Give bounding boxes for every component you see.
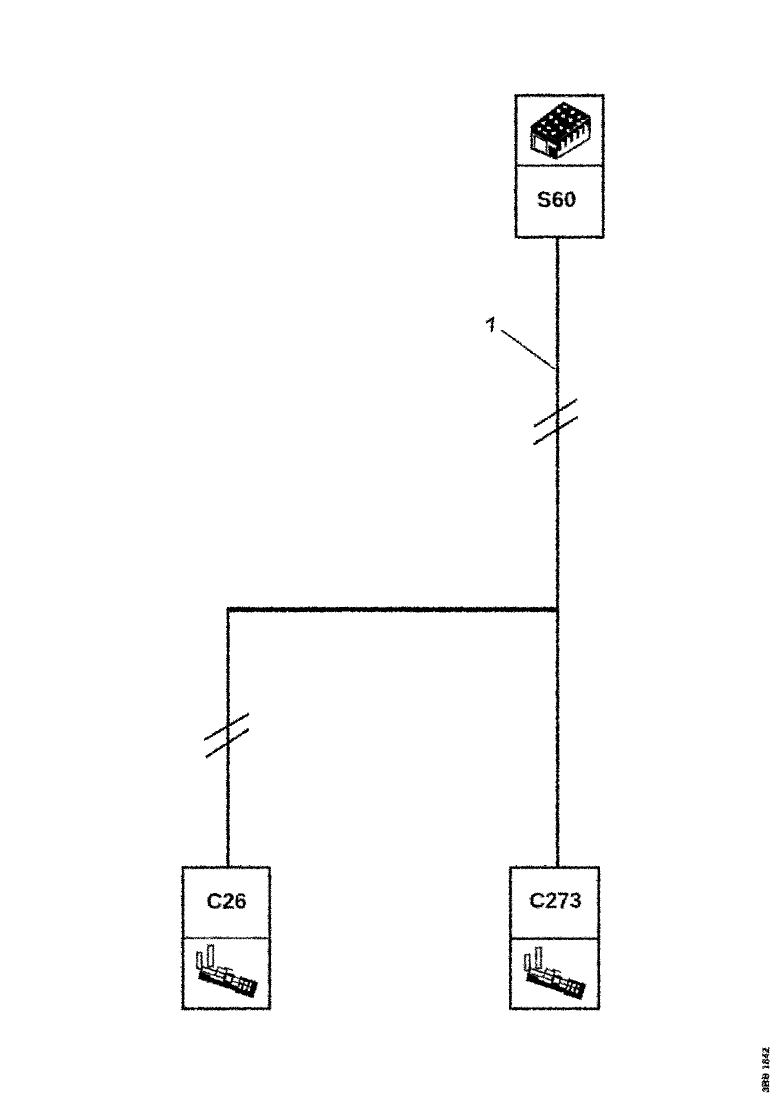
svg-text:3BB 1842: 3BB 1842 [761, 1047, 772, 1092]
svg-text:C273: C273 [529, 888, 582, 913]
svg-text:S60: S60 [536, 187, 575, 212]
svg-text:C26: C26 [206, 888, 246, 913]
